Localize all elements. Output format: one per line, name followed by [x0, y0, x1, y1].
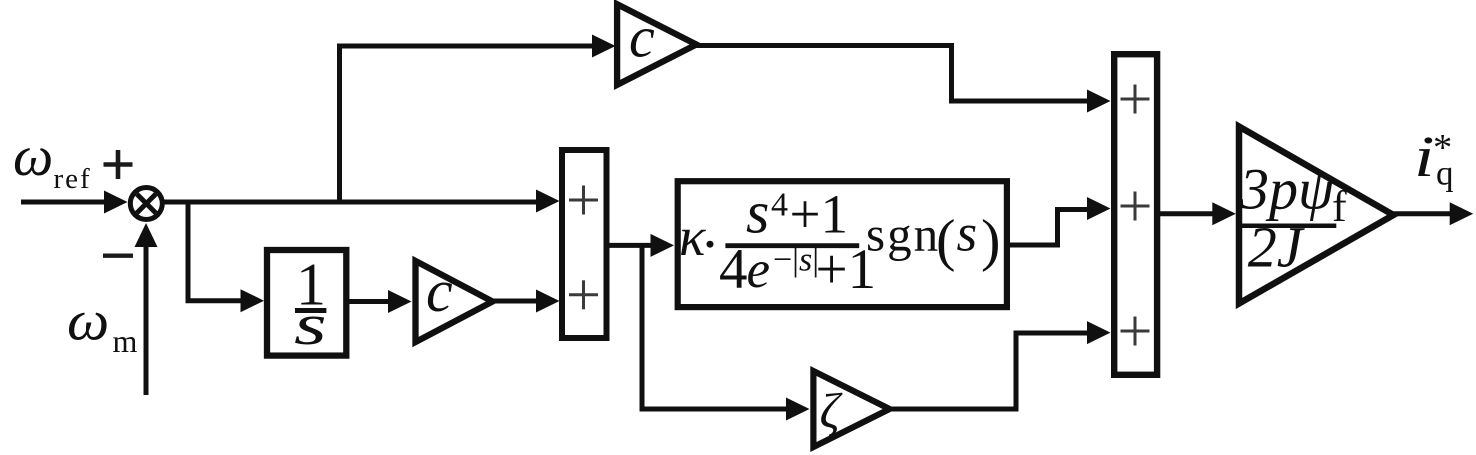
- svg-text:e: e: [747, 241, 771, 299]
- svg-text:4: 4: [719, 238, 748, 301]
- wire SMC output to sum2 middle input: [1010, 210, 1088, 246]
- wire integrator to gain c lower: [349, 299, 389, 304]
- svg-text:−|s|: −|s|: [773, 242, 819, 279]
- arrowhead into sum1 upper plus: [536, 190, 560, 213]
- wire lower gain c to sum1 lower input: [493, 299, 537, 304]
- wire from top gain c to sum2 top input: [696, 46, 1088, 102]
- arrowhead into sum2 middle plus: [1087, 197, 1111, 220]
- wire input omega_ref: [21, 200, 106, 205]
- svg-text:s: s: [746, 180, 769, 246]
- integrator block 1/s: [267, 250, 346, 356]
- svg-text:+1: +1: [790, 184, 849, 245]
- svg-text:3pψ: 3pψ: [1239, 157, 1335, 222]
- svg-text:ω: ω: [67, 289, 109, 352]
- wire final output: [1393, 211, 1450, 216]
- wire branch down to integrator: [188, 202, 242, 301]
- plus sign at summing junction: [104, 150, 133, 179]
- denominator 4e-|s|+1: [719, 238, 876, 301]
- output gain triangle: [1239, 127, 1394, 304]
- summing block sum1: [562, 150, 607, 338]
- numerator s4+1: [746, 180, 848, 246]
- svg-text:2J: 2J: [1248, 215, 1306, 280]
- svg-text:c: c: [629, 4, 655, 69]
- arrowhead into summing junction: [104, 191, 128, 214]
- arrowhead into integrator: [241, 289, 265, 312]
- label 3p psi f: [1239, 157, 1347, 231]
- arrowhead into SMC block: [651, 234, 675, 257]
- wire omega_m vertical input: [144, 246, 149, 395]
- wire branch down to gain zeta: [642, 245, 786, 409]
- svg-text:): ): [981, 207, 1000, 272]
- arrowhead into summing junction bottom: [135, 223, 158, 247]
- plus upper in sum1: [569, 186, 598, 215]
- arrowhead into output gain triangle: [1212, 202, 1236, 225]
- svg-text:q: q: [1436, 154, 1454, 193]
- arrowhead into sum2 top plus: [1087, 90, 1111, 113]
- label iq star output: [1414, 125, 1454, 192]
- plus top in sum2: [1121, 85, 1150, 114]
- svg-text:m: m: [113, 323, 138, 359]
- svg-text:(: (: [936, 207, 955, 272]
- wire sum2 output to output gain: [1160, 211, 1213, 216]
- arrowhead into top gain c: [592, 35, 616, 58]
- label omega_m: [67, 289, 138, 359]
- gain c top triangle: [617, 4, 696, 85]
- label omega_ref: [13, 125, 92, 195]
- arrowhead into sum1 lower plus: [536, 290, 560, 313]
- label 1 over s: [294, 251, 327, 357]
- plus middle in sum2: [1121, 192, 1150, 221]
- wire branch up to gain c top: [340, 46, 595, 202]
- svg-text:ω: ω: [13, 125, 53, 188]
- wire main horizontal from junction to sum1: [164, 200, 538, 205]
- svg-text:κ: κ: [679, 206, 706, 267]
- fraction bar: [725, 243, 859, 248]
- svg-text:ref: ref: [54, 163, 92, 195]
- plus lower in sum1: [569, 280, 598, 309]
- summing block sum2: [1114, 54, 1157, 375]
- arrowhead into sum2 bottom plus: [1087, 321, 1111, 344]
- arrowhead into lower gain c: [388, 290, 412, 313]
- svg-text:4: 4: [771, 187, 788, 224]
- wire sum1 output to SMC block: [609, 243, 651, 248]
- summing junction circle with X: [130, 188, 162, 220]
- arrowhead into gain zeta: [786, 398, 810, 421]
- SMC block: [678, 181, 1007, 307]
- svg-text:s: s: [957, 204, 978, 262]
- plus bottom in sum2: [1121, 317, 1150, 346]
- svg-text:c: c: [426, 258, 453, 324]
- fraction bar output gain: [1238, 223, 1337, 228]
- svg-text:sgn: sgn: [866, 206, 940, 261]
- wire gain zeta to sum2 bottom input: [890, 333, 1088, 409]
- svg-text:s: s: [294, 293, 327, 357]
- gain c lower triangle: [416, 261, 493, 342]
- svg-text:i: i: [1414, 125, 1434, 189]
- minus sign at summing junction: [103, 254, 133, 258]
- label cdot: [707, 241, 714, 248]
- gain zeta triangle: [813, 371, 889, 447]
- arrowhead final output: [1450, 202, 1474, 225]
